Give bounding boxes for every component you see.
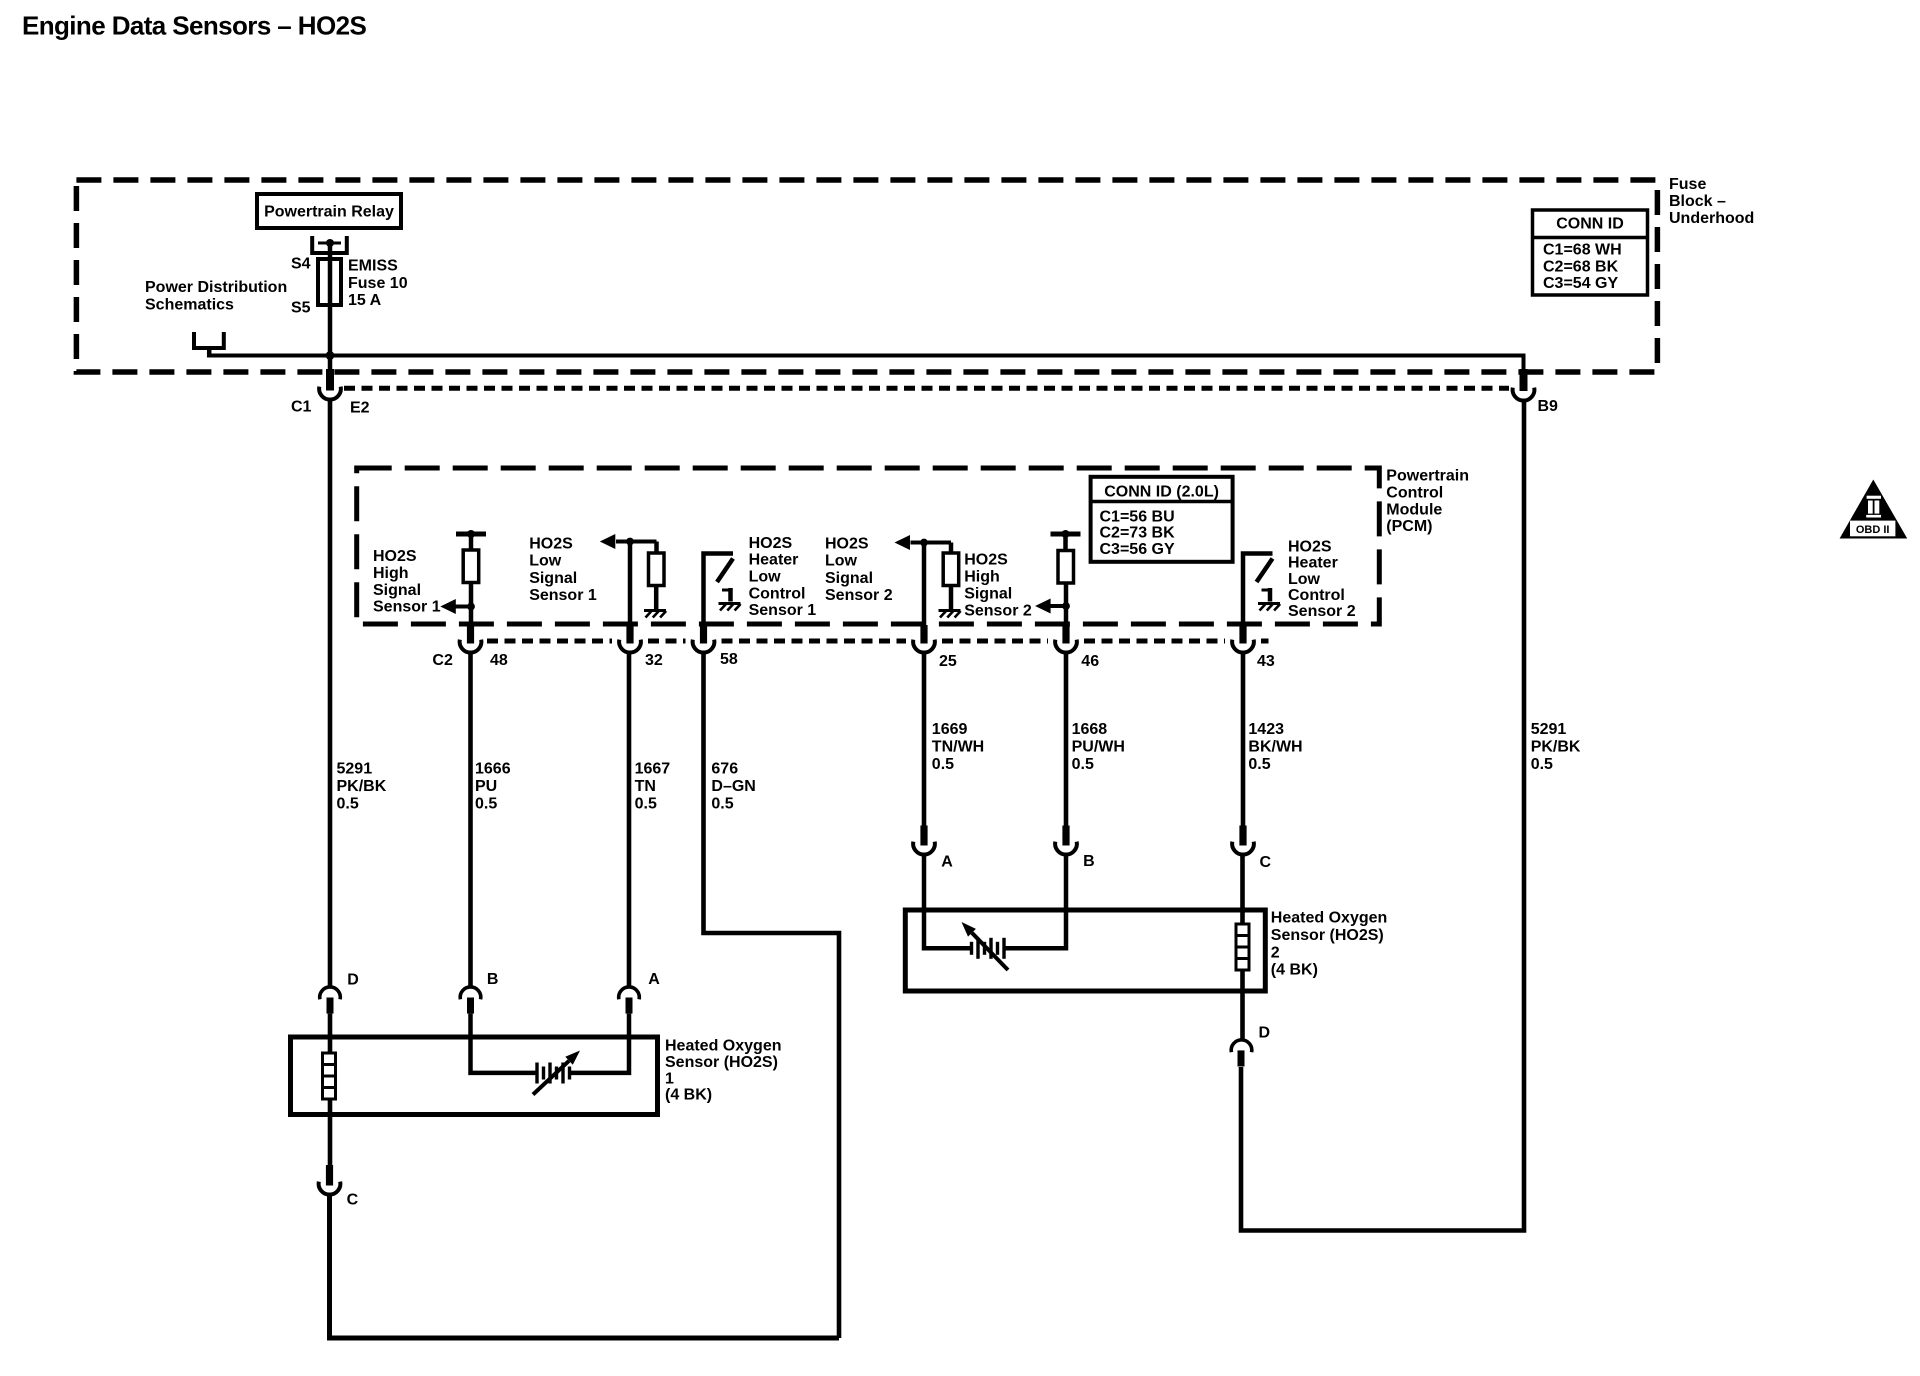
svg-text:46: 46 [1081,653,1099,670]
resistor R1 (HO2S high signal 1) [469,534,474,550]
svg-text:2: 2 [1271,944,1280,961]
svg-text:BK/WH: BK/WH [1248,738,1302,755]
svg-text:0.5: 0.5 [1531,756,1553,773]
svg-text:43: 43 [1257,653,1275,670]
svg-text:HO2S: HO2S [749,535,793,552]
svg-text:Module: Module [1386,501,1442,518]
svg-text:Control: Control [749,585,806,602]
OBD II symbol [1840,480,1908,539]
svg-text:Heated Oxygen: Heated Oxygen [665,1038,781,1055]
svg-text:0.5: 0.5 [1248,756,1270,773]
heater element (HO2S 1) [323,1053,336,1099]
svg-text:HO2S: HO2S [825,536,869,553]
sensor element arrow (HO2S 2) [972,933,1008,970]
wire 1669 TN/WH (pin 25 to HO2S2 A) [922,651,927,828]
heater driver switch (sensor 1) [704,554,734,629]
svg-text:High: High [373,565,409,582]
pin 46 terminal [1062,625,1069,644]
svg-text:Low: Low [825,553,858,570]
switch fixed contact (sensor 1) [722,589,731,592]
svg-text:1: 1 [665,1070,674,1087]
svg-text:PK/BK: PK/BK [337,778,387,795]
wire 1667 TN (pin 32 to HO2S1 A) [627,651,632,987]
svg-text:C1=56 BU: C1=56 BU [1100,508,1175,525]
svg-text:Engine Data Sensors – HO2S: Engine Data Sensors – HO2S [22,11,366,41]
resistor R3 (HO2S low signal 2) [949,543,954,554]
svg-text:Sensor 2: Sensor 2 [825,587,893,604]
svg-text:15 A: 15 A [348,292,382,309]
wire 5291 PK/BK (C1 to HO2S1 D) [328,398,333,987]
connector C1/E2 terminal [326,369,334,391]
svg-text:0.5: 0.5 [475,796,497,813]
fuse block - underhood dashed outline [76,180,1657,372]
sensor box: Heated Oxygen Sensor (HO2S) 1 [291,1037,658,1115]
svg-text:0.5: 0.5 [711,796,733,813]
CONN ID (2.0L) table [1091,477,1233,562]
svg-text:HO2S: HO2S [373,548,417,565]
svg-text:C2=68 BK: C2=68 BK [1543,258,1619,275]
wire 1666 PU (pin 48 to HO2S1 B) [468,651,473,987]
svg-text:High: High [964,569,1000,586]
svg-text:1423: 1423 [1248,721,1284,738]
svg-text:0.5: 0.5 [635,796,657,813]
svg-text:0.5: 0.5 [337,796,359,813]
svg-text:C: C [347,1192,359,1209]
svg-text:C2: C2 [432,652,453,669]
wire resistor R2 to ground [654,586,659,610]
relay contact bracket [312,236,347,253]
svg-text:Low: Low [1288,571,1321,588]
svg-text:Underhood: Underhood [1669,210,1754,227]
svg-text:25: 25 [939,653,957,670]
relay contact arm with junction [318,242,341,245]
svg-text:1669: 1669 [932,721,968,738]
svg-text:C3=56 GY: C3=56 GY [1100,541,1175,558]
svg-text:E2: E2 [350,400,370,417]
wire resistor R3 to ground [949,586,954,610]
signal arrow (HO2S high signal sensor 1) [445,605,471,609]
heater element (HO2S 2) [1236,924,1249,970]
svg-text:PU/WH: PU/WH [1072,738,1125,755]
svg-text:(PCM): (PCM) [1386,518,1432,535]
connector C terminal (HO2S2) [1239,826,1246,846]
sensor element (HO2S 1 variable source) [535,1063,538,1084]
svg-text:EMISS: EMISS [348,258,398,275]
svg-text:Signal: Signal [964,586,1012,603]
wire relay to fuse S4 [328,243,333,259]
page-reference bracket (power distribution) [194,332,224,348]
pin 48 terminal [467,625,474,644]
wire pin 25 [922,543,927,629]
sensor element arrow (HO2S 1) [533,1061,569,1095]
svg-text:Schematics: Schematics [145,297,234,314]
wire resistor R4 to pin 46 [1064,583,1069,628]
CONN ID table (fuse block) [1533,210,1648,295]
ground (low signal 2) [939,609,961,612]
wire 5291 PK/BK right side (B9 down to HO2S2 D) [1241,399,1524,1231]
svg-text:5291: 5291 [337,761,373,778]
svg-text:Block –: Block – [1669,193,1726,210]
svg-text:Low: Low [749,569,782,586]
wire C into sensor 2 [1240,853,1245,992]
svg-text:Sensor 1: Sensor 1 [749,602,817,619]
ground (low signal 1) [644,609,666,612]
connector A terminal (HO2S2) [920,826,927,846]
svg-text:0.5: 0.5 [1072,756,1094,773]
ground (heater control 1) [719,602,741,605]
connector A terminal (HO2S1) [619,987,640,999]
svg-text:D–GN: D–GN [711,778,755,795]
connector B terminal (HO2S2) [1062,826,1069,846]
svg-text:Sensor 2: Sensor 2 [964,602,1032,619]
svg-text:C2=73 BK: C2=73 BK [1100,525,1176,542]
svg-text:Control: Control [1288,587,1345,604]
connector B9 terminal [1520,369,1528,391]
svg-text:32: 32 [645,652,663,669]
svg-text:Control: Control [1386,485,1443,502]
wire B into sensor 2 [1004,853,1066,949]
svg-text:Sensor 1: Sensor 1 [529,587,597,604]
pin 58 terminal [700,625,707,644]
svg-text:D: D [347,972,359,989]
svg-text:C1=68 WH: C1=68 WH [1543,242,1622,259]
wire 1423 BK/WH (pin 43 to HO2S2 C) [1241,651,1246,828]
svg-text:S5: S5 [291,300,311,317]
signal arrow (HO2S low signal sensor 1) [616,540,657,544]
svg-text:Power Distribution: Power Distribution [145,279,287,296]
svg-text:1666: 1666 [475,761,511,778]
wire D into sensor 1 [328,1014,333,1166]
resistor R4 (HO2S high signal 2) [1063,534,1068,551]
svg-text:D: D [1259,1025,1271,1042]
svg-text:HO2S: HO2S [964,552,1008,569]
svg-text:Heater: Heater [1288,555,1338,572]
connector B terminal (HO2S1) [460,987,481,999]
svg-text:Sensor 2: Sensor 2 [1288,603,1356,620]
sensor box: Heated Oxygen Sensor (HO2S) 2 [905,910,1265,991]
svg-text:1667: 1667 [635,761,671,778]
wire B into sensor 1 [471,1014,538,1073]
svg-text:HO2S: HO2S [1288,538,1332,555]
svg-text:(4 BK): (4 BK) [1271,962,1318,979]
bus wire: fuse output S5 to B9 drop [209,356,1523,373]
svg-text:Sensor (HO2S): Sensor (HO2S) [665,1054,778,1071]
svg-text:Powertrain: Powertrain [1386,468,1469,485]
signal arrow (HO2S low signal sensor 2) [911,541,952,545]
connector D terminal (HO2S2) [1231,1040,1252,1052]
switch fixed contact (sensor 2) [1262,589,1271,592]
svg-text:Signal: Signal [825,570,873,587]
svg-text:48: 48 [490,652,508,669]
svg-text:Signal: Signal [529,570,577,587]
svg-text:B9: B9 [1538,398,1559,415]
connector D terminal (HO2S1) [320,987,341,999]
connector face dotted line (PCM C2) [487,639,612,644]
svg-text:A: A [941,854,953,871]
voltage source bar (pin 48) [456,532,486,537]
ground (heater control 2) [1258,602,1280,605]
wire A into sensor 1 [570,1014,629,1073]
svg-text:Low: Low [529,553,562,570]
signal arrow (HO2S high signal sensor 2) [1051,604,1067,608]
wire pin 32 [628,542,633,629]
svg-text:PU: PU [475,778,497,795]
svg-text:676: 676 [711,761,738,778]
connector C terminal (HO2S1) [326,1165,333,1186]
wire resistor to pin 48 [469,583,474,629]
resistor R2 (HO2S low signal 1) [654,542,659,554]
svg-text:0.5: 0.5 [932,756,954,773]
svg-text:PK/BK: PK/BK [1531,738,1581,755]
relay K: Powertrain Relay box [257,194,401,228]
wire 1668 PU/WH (pin 46 to HO2S2 B) [1064,651,1069,828]
svg-text:C3=54 GY: C3=54 GY [1543,275,1618,292]
svg-text:Powertrain Relay: Powertrain Relay [264,204,394,221]
sensor element (HO2S 2 variable source) [970,942,973,955]
svg-text:CONN ID: CONN ID [1556,216,1624,233]
heater driver switch (sensor 2) [1243,554,1273,629]
svg-text:CONN ID (2.0L): CONN ID (2.0L) [1104,484,1219,501]
wire C to ground loop [330,1193,840,1339]
voltage source bar (pin 46) [1051,532,1081,537]
fuse F10: EMISS Fuse 10 15A [318,259,341,305]
svg-text:TN/WH: TN/WH [932,738,984,755]
svg-text:58: 58 [720,651,738,668]
junction node at fuse wire and bus [328,305,333,372]
svg-text:Sensor (HO2S): Sensor (HO2S) [1271,927,1384,944]
svg-text:C1: C1 [291,399,312,416]
svg-text:(4 BK): (4 BK) [665,1087,712,1104]
svg-text:HO2S: HO2S [529,536,573,553]
svg-text:Sensor 1: Sensor 1 [373,599,441,616]
svg-text:TN: TN [635,778,656,795]
pin 43 terminal [1239,625,1246,644]
svg-text:B: B [487,971,499,988]
svg-text:Fuse 10: Fuse 10 [348,275,408,292]
svg-text:Heater: Heater [749,552,799,569]
pin 25 terminal [920,625,927,644]
svg-text:S4: S4 [291,256,311,273]
svg-text:OBD II: OBD II [1856,524,1890,536]
pin 32 terminal [626,625,633,644]
connector face dotted line C1-B9 [344,386,1509,391]
wire 676 D-GN (pin 58 down, over, down) [704,651,840,1339]
svg-text:5291: 5291 [1531,721,1567,738]
svg-text:Signal: Signal [373,582,421,599]
wire A into sensor 2 [924,853,972,949]
PCM dashed outline [357,468,1380,624]
svg-text:C: C [1260,854,1272,871]
svg-text:Heated Oxygen: Heated Oxygen [1271,910,1387,927]
svg-text:Fuse: Fuse [1669,176,1706,193]
svg-text:B: B [1083,853,1095,870]
svg-text:1668: 1668 [1072,721,1108,738]
svg-text:A: A [648,971,660,988]
